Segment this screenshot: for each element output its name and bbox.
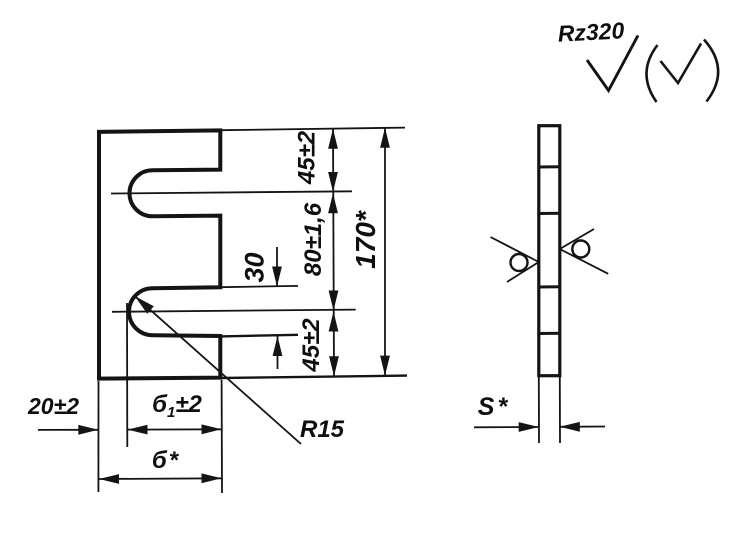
centerline slot 2 — [112, 310, 356, 312]
slot2 bottom edge extension (for dim 30) — [221, 335, 299, 337]
bottom edge extension line — [221, 376, 407, 378]
opening parenthesis — [646, 45, 657, 102]
dimension б* line — [99, 477, 222, 480]
closing parenthesis — [704, 40, 718, 102]
side view extension line left — [538, 377, 540, 443]
inner check mark — [661, 44, 702, 84]
svg-text:б1±2: б1±2 — [152, 391, 202, 421]
right face mark: circle — [572, 241, 589, 258]
side view division line 3 (slot2 top) — [538, 285, 561, 288]
dimension 30 lower line + arrow (up) — [277, 336, 279, 369]
arrow 45 bottom lower (down) — [329, 356, 339, 376]
dimension б1±2 line — [128, 428, 222, 430]
plate outline (main view) — [99, 130, 220, 378]
left face mark: arms — [491, 237, 539, 282]
R15 leader arrowhead — [135, 296, 154, 314]
right face mark: arms — [560, 229, 608, 274]
svg-text:30: 30 — [240, 252, 270, 282]
top edge extension line — [221, 128, 405, 131]
dimension S* right line + arrow (left) — [560, 426, 605, 428]
arrow б* right — [202, 473, 222, 483]
centerline slot 1 — [111, 191, 352, 193]
slot2 top edge extension (for dim 30) — [221, 286, 299, 287]
arrow 80 upper (up) — [328, 193, 338, 213]
dimension 30 upper line + arrow (down) — [276, 247, 278, 287]
svg-text:S*: S* — [478, 393, 510, 421]
left face mark: circle — [511, 254, 528, 271]
R15 leader line — [135, 296, 301, 444]
dimension 20±2 line + arrow (right) — [38, 429, 98, 431]
svg-text:Rz320: Rz320 — [557, 17, 625, 46]
arrow б1 right — [202, 424, 222, 434]
svg-text:45±2: 45±2 — [294, 130, 321, 185]
side view division line 1 (slot1 top) — [538, 165, 561, 168]
extension line slot left extreme (x=127) — [126, 303, 128, 447]
side view division line 2 (slot1 bottom) — [538, 212, 561, 215]
svg-text:170*: 170* — [350, 210, 381, 269]
svg-text:R15: R15 — [300, 416, 345, 443]
arrow 45 top upper (up) — [328, 129, 338, 149]
side view extension line right — [559, 377, 561, 443]
arrow 170 lower (down) — [380, 356, 390, 376]
svg-text:б*: б* — [152, 447, 180, 474]
arrow 80 lower (down) — [329, 291, 339, 311]
extension line below plate right edge — [221, 380, 223, 493]
extension line below plate left edge — [97, 381, 99, 492]
dimension line 170* — [384, 128, 386, 376]
dimension S* left line + arrow (right) — [474, 426, 539, 428]
arrow б* left — [99, 474, 119, 484]
svg-text:20±2: 20±2 — [27, 393, 79, 419]
surface finish check mark — [587, 36, 638, 91]
arrow 45 bottom upper (up) — [329, 312, 339, 332]
side view strip outline — [539, 126, 560, 376]
side view division line 4 (slot2 bottom) — [538, 332, 561, 335]
svg-text:80±1,6: 80±1,6 — [300, 202, 327, 276]
svg-text:45±2: 45±2 — [298, 318, 325, 373]
arrow б1 left — [128, 425, 148, 435]
arrow 45 top lower (down) — [328, 172, 338, 192]
arrow 170 upper (up) — [380, 128, 390, 148]
dimension chain line 45/80/45 — [333, 129, 334, 377]
